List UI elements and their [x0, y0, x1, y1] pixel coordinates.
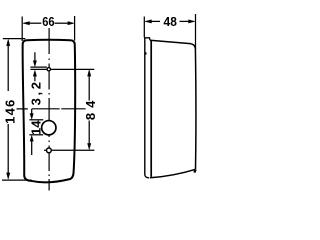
svg-text:84: 84	[83, 96, 98, 120]
svg-text:66: 66	[42, 14, 55, 29]
svg-text:146: 146	[3, 99, 18, 124]
svg-text:48: 48	[164, 15, 177, 30]
svg-text:14: 14	[28, 120, 43, 135]
svg-text:3,2: 3,2	[28, 79, 43, 105]
